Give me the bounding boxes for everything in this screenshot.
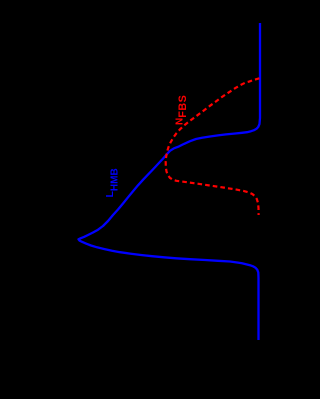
- blue rotated label: [104, 168, 121, 197]
- red rotated label: [175, 95, 190, 125]
- red dashed curve: [166, 78, 260, 215]
- blue solid curve: [79, 23, 261, 340]
